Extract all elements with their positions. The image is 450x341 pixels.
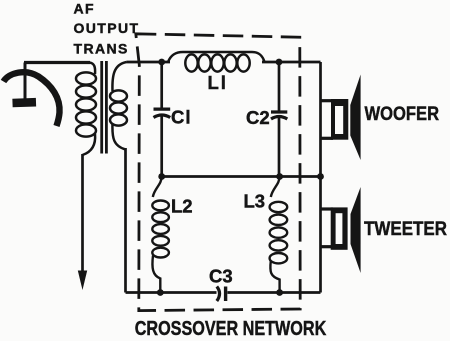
svg-text:Ll: Ll: [208, 72, 228, 93]
svg-text:WOOFER: WOOFER: [365, 103, 440, 124]
junction node: C1 top: [158, 59, 165, 66]
transformer core: [102, 61, 107, 154]
tweeter speaker icon: [321, 187, 361, 273]
tube V1 envelope arc: [4, 72, 60, 126]
junction node: C2/L3: [276, 173, 283, 180]
wire: middle rail: [162, 175, 321, 178]
capacitor C3: [217, 287, 226, 302]
svg-text:TRANS: TRANS: [74, 41, 129, 57]
wire: bottom rail: [126, 291, 217, 294]
transformer T1 secondary winding: [110, 62, 127, 150]
wire: top rail: [127, 61, 171, 64]
svg-text:L2: L2: [171, 196, 193, 217]
junction node: middle rail to bus: [317, 173, 324, 180]
capacitor C2: [271, 62, 287, 177]
arrow on primary return lead: [78, 154, 87, 290]
dashed box: crossover network outline: [136, 34, 300, 311]
svg-text:AF: AF: [74, 1, 95, 17]
junction node: L2 bottom: [157, 289, 164, 296]
transformer T1 primary winding: [76, 63, 96, 156]
svg-text:C3: C3: [209, 266, 233, 287]
svg-text:OUTPUT: OUTPUT: [74, 20, 140, 36]
junction node: L3 bottom: [276, 289, 283, 296]
inductor L2: [152, 177, 169, 293]
svg-text:Cl: Cl: [171, 107, 192, 128]
wire secondary bottom to bottom rail: [124, 148, 127, 293]
inductor L3: [270, 177, 288, 293]
wire: speaker bus vertical: [319, 62, 322, 293]
svg-text:TWEETER: TWEETER: [364, 218, 447, 239]
wire plate to transformer primary: [24, 61, 90, 64]
junction node: C1/L2: [158, 173, 165, 180]
capacitor C1: [154, 62, 171, 177]
woofer speaker icon: [321, 75, 361, 161]
junction node: C2 top: [276, 59, 283, 66]
inductor L1: [168, 52, 265, 72]
svg-text:C2: C2: [246, 107, 270, 128]
svg-text:L3: L3: [244, 191, 266, 212]
tube plate: [13, 63, 37, 104]
svg-text:CROSSOVER NETWORK: CROSSOVER NETWORK: [135, 317, 327, 339]
